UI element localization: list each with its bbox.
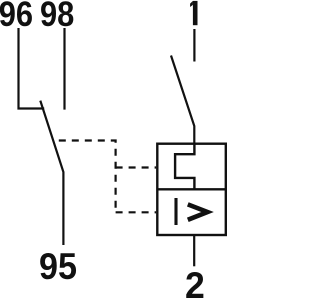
trip unit divider [157, 188, 226, 190]
wire 1 [193, 29, 195, 62]
svg-text:95: 95 [39, 245, 77, 287]
wire 98 [63, 28, 65, 110]
svg-text:96: 96 [0, 0, 33, 34]
svg-text:98: 98 [40, 0, 74, 34]
contact lever 95-96 (NC changeover) [40, 101, 63, 245]
overcurrent symbol > chevron [188, 204, 208, 219]
wire 2 [193, 235, 195, 266]
overcurrent symbol I bar [174, 198, 177, 225]
dashed mechanical linkage from lever [59, 141, 116, 213]
terminal label 1 [190, 1, 197, 25]
svg-text:2: 2 [185, 264, 205, 300]
wire 96 [19, 28, 45, 109]
main contact lever 1-2 [171, 56, 194, 144]
dashed linkage stub to thermal element [116, 166, 157, 168]
thermal overload element (conductor detour) [175, 144, 194, 190]
dashed linkage stub to magnetic element [116, 211, 157, 213]
trip unit box [157, 144, 226, 235]
